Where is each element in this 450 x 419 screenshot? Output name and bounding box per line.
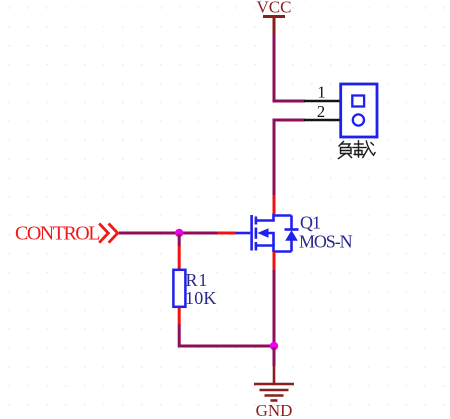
- svg-text:MOS-N: MOS-N: [299, 232, 353, 252]
- wire node B to ground: [273, 347, 276, 366]
- pin 2: [304, 119, 340, 122]
- wire Q1 source to node B: [273, 270, 276, 346]
- wire CONTROL to gate: [119, 232, 218, 235]
- drain stub: [256, 214, 274, 221]
- resistor R1 body: [173, 270, 185, 307]
- channel segment bottom: [255, 242, 258, 251]
- wire VCC to connector pin 1: [274, 33, 305, 101]
- channel segment top: [255, 217, 258, 225]
- connector J1 (load) body: [341, 84, 377, 137]
- junction node B: [270, 342, 278, 350]
- svg-text:GND: GND: [256, 401, 293, 419]
- glyph 负: [339, 142, 344, 147]
- svg-text:VCC: VCC: [257, 0, 292, 17]
- pin 1: [304, 100, 340, 103]
- body diode triangle: [285, 230, 298, 240]
- body arrow (points to channel): [257, 228, 268, 238]
- gate bar: [250, 215, 253, 251]
- source pin (red): [273, 252, 276, 271]
- body connection line: [267, 233, 274, 246]
- glyph 载: [355, 143, 364, 145]
- svg-text:2: 2: [317, 102, 325, 121]
- wire connector pin 2 to Q1 drain: [274, 120, 305, 196]
- diode cathode bar: [285, 228, 299, 231]
- gate lead: [235, 232, 250, 235]
- label 负载 (load) hand-drawn glyphs: [339, 141, 376, 159]
- diode branch verticals: [290, 216, 293, 252]
- resistor R1 bottom pin (red): [178, 308, 181, 326]
- power VCC: [263, 17, 285, 35]
- junction node A: [175, 229, 183, 237]
- gate pin (red): [217, 232, 236, 235]
- ground: [254, 365, 294, 401]
- channel segment middle: [255, 228, 258, 239]
- drain pin (red): [273, 195, 276, 214]
- port CONTROL chevrons: [99, 224, 118, 243]
- svg-text:CONTROL: CONTROL: [15, 223, 100, 245]
- transistor Q1 (N-MOSFET with body diode): [235, 214, 299, 253]
- source stub: [256, 246, 274, 253]
- resistor R1 top pin (red): [178, 246, 181, 269]
- wire R1 to node B: [179, 325, 275, 347]
- svg-text:1: 1: [317, 83, 325, 102]
- wire node A to R1: [178, 234, 181, 247]
- top horizontal to diode branch: [274, 214, 292, 217]
- svg-text:10K: 10K: [185, 288, 217, 308]
- bottom horizontal to diode branch: [274, 250, 292, 253]
- svg-text:Q1: Q1: [300, 212, 320, 232]
